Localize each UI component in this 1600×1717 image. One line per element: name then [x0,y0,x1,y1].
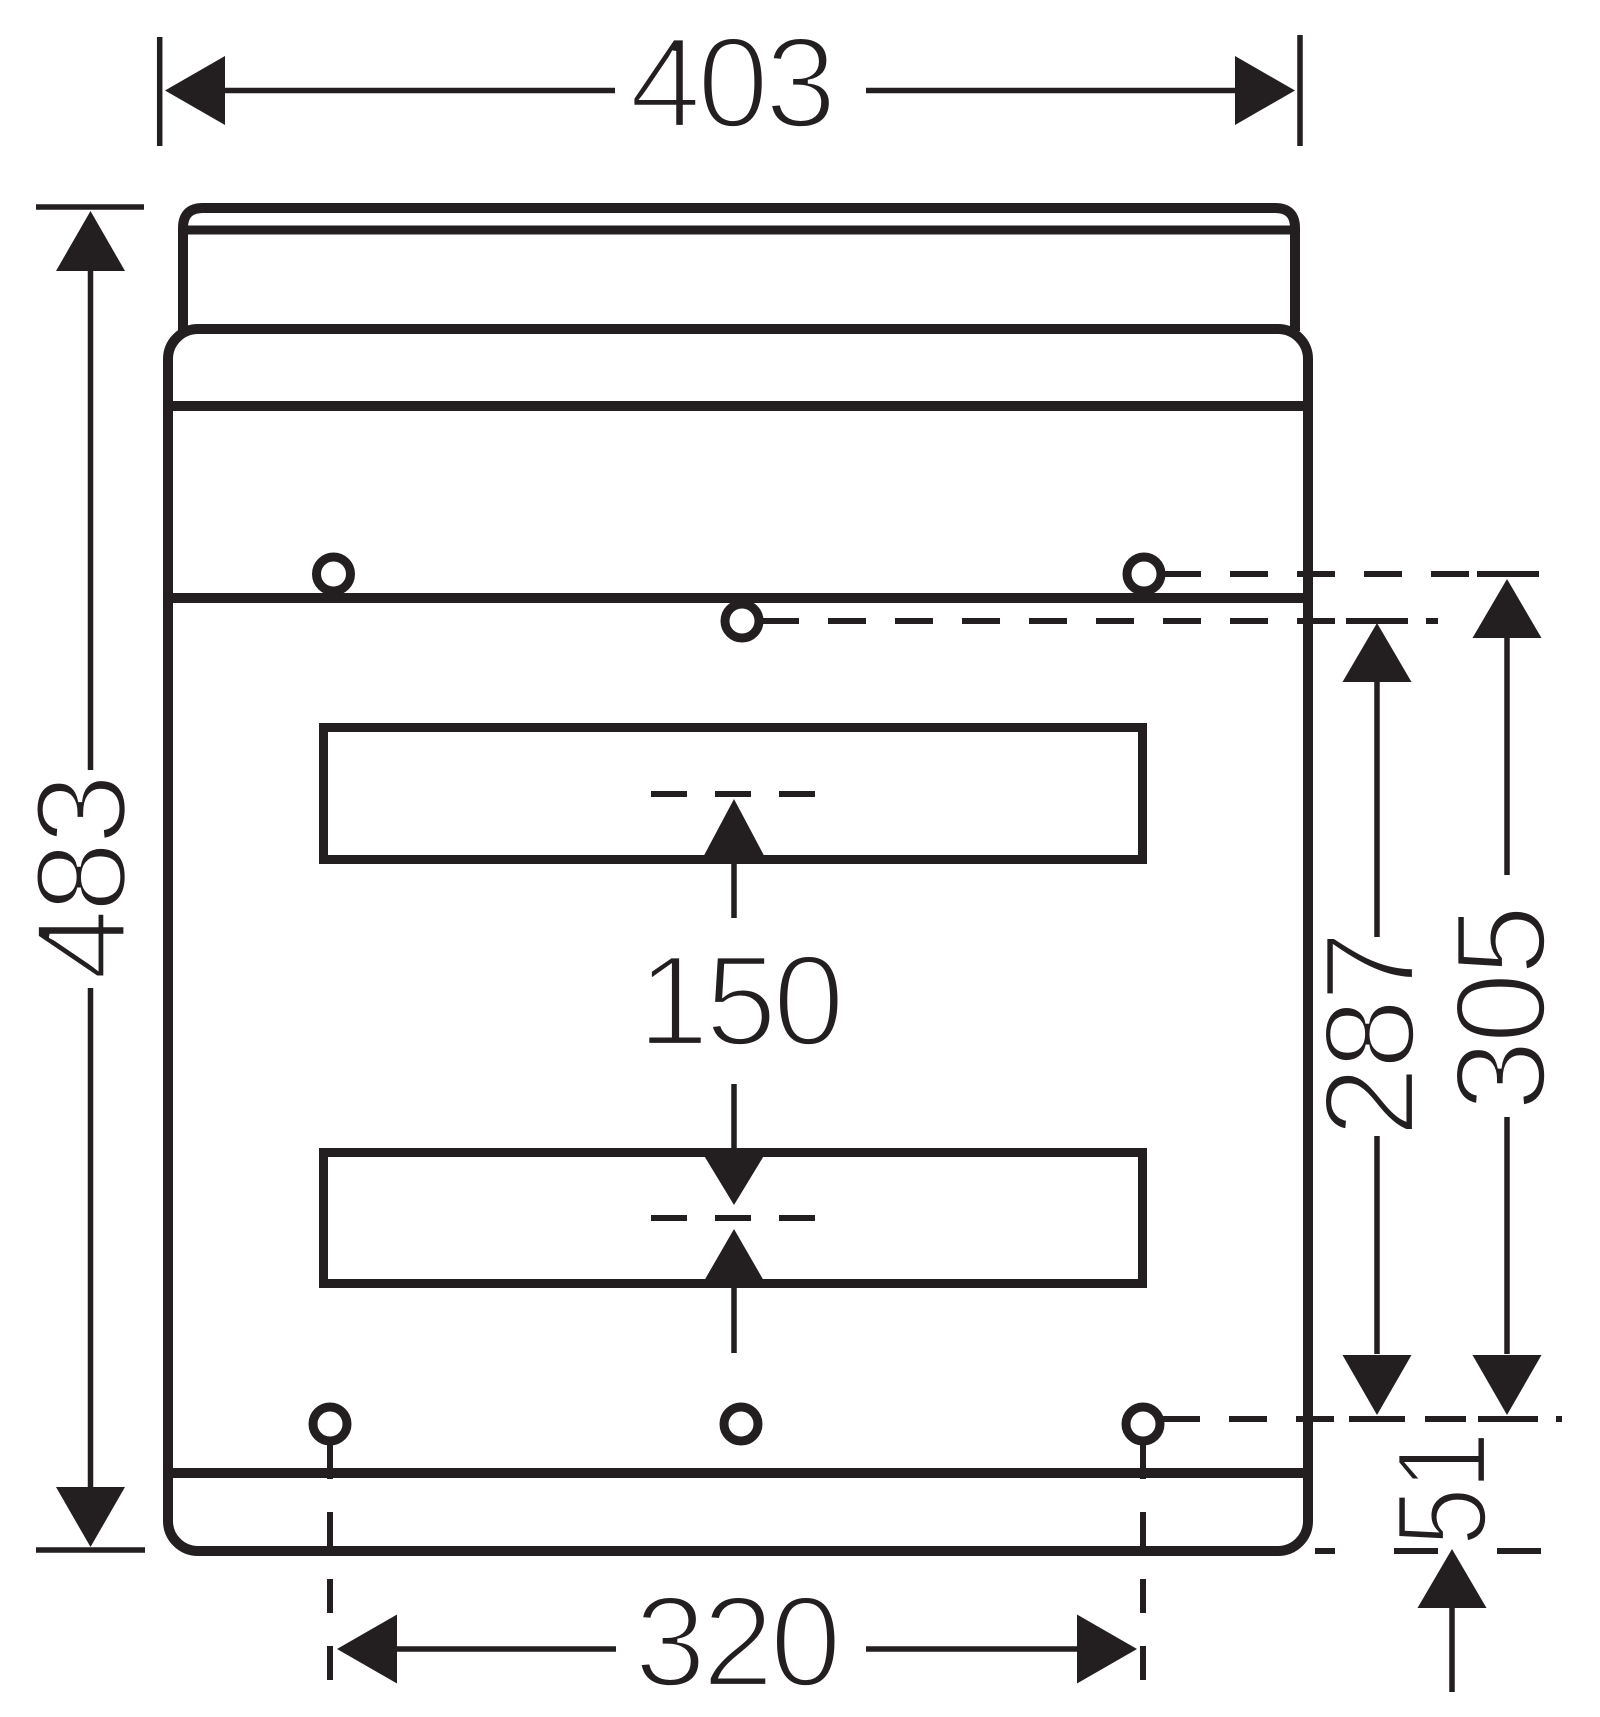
slot 2 centerline dashes [651,1215,818,1221]
dim 483 bottom extension tick [36,1547,145,1553]
top-middle mounting hole [725,604,759,638]
dim 305 top arrow [1473,579,1542,638]
dim 403 left arrow [165,56,225,125]
dim 150 line above slot 2 [731,1084,737,1149]
dim 320 right arrow [1077,1615,1137,1684]
dim 287 dimension line upper [1374,682,1380,937]
dim 403 right arrow [1235,56,1295,125]
dashed line from top-middle hole [761,618,1337,624]
dim 287 top extension tick [1346,618,1408,624]
lid front edge line [183,226,1295,235]
svg-text:305: 305 [1429,908,1573,1111]
enclosure body outline [168,329,1308,1551]
dim 150 line below slot 2 [731,1288,737,1353]
dash 3 box bottom edge extension [1497,1548,1541,1554]
dim 320 left arrow [337,1615,397,1684]
dim 150 line below slot 1 [731,864,737,918]
enclosure lid outline [183,208,1295,331]
dim 287 bottom extension tick [1349,1416,1405,1422]
dim 483 dimension line lower [88,988,94,1488]
slot 2 cutout [324,1153,1143,1284]
dim 51 dimension line [1449,1608,1455,1692]
dim 287 dimension line lower [1374,1136,1380,1354]
dim 305 dimension line lower [1504,1117,1510,1354]
dim 320 dimension line left [397,1646,616,1652]
dashed line box bottom edge extension [1315,1548,1335,1554]
top-right mounting hole [1127,557,1161,591]
svg-text:483: 483 [10,777,154,980]
svg-text:403: 403 [629,11,832,155]
top-left mounting hole [317,557,351,591]
bottom-right mounting hole [1126,1407,1160,1441]
dim 305 bottom arrow [1473,1355,1542,1415]
svg-text:320: 320 [634,1570,837,1714]
bottom inner line [168,1468,1308,1478]
dash 2 box bottom edge extension [1394,1548,1438,1554]
svg-text:150: 150 [637,929,840,1073]
dim 320 left extension dashed line [327,1445,333,1682]
bottom-middle mounting hole [724,1407,758,1441]
dim 483 top arrow [56,211,125,271]
bottom-left mounting hole [313,1407,347,1441]
dim 305 top extension tick [1477,571,1539,577]
dim 305 dimension line upper [1504,638,1510,875]
dim 483 bottom arrow [56,1487,125,1547]
dim 483 top extension tick [36,204,144,210]
dash between bottom ticks [1425,1416,1466,1422]
dim 150 lower up arrow (inside slot 2) [700,1229,768,1288]
dim 483 dimension line upper [88,268,94,770]
dim 320 right extension dashed line [1140,1445,1146,1682]
dim 403 left extension line [157,37,163,146]
dim 287 bottom arrow [1343,1355,1412,1415]
dim 403 dimension line right [866,88,1237,94]
dashed line from top-right hole [1163,571,1472,577]
dashed line bottom holes row [1162,1416,1334,1422]
flange line [168,593,1308,603]
dim 403 dimension line left [223,88,615,94]
slot 1 centerline dashes [651,791,818,797]
dim 320 dimension line right [866,1646,1079,1652]
dim 150 down arrow (inside slot 2) [700,1149,768,1205]
dim 403 right extension line [1297,35,1303,146]
dim 51 up arrow [1418,1549,1487,1608]
trailing dash bottom holes row [1556,1416,1562,1422]
dim 305 bottom extension tick [1478,1416,1538,1422]
dashed line dot after 287 tick [1426,618,1438,624]
collar line [168,401,1308,411]
dim 150 upper arrow (inside slot 1) [700,799,768,863]
slot 1 cutout [324,728,1143,860]
svg-text:51: 51 [1370,1435,1514,1547]
svg-text:287: 287 [1298,934,1442,1137]
dim 287 top arrow [1343,623,1412,682]
